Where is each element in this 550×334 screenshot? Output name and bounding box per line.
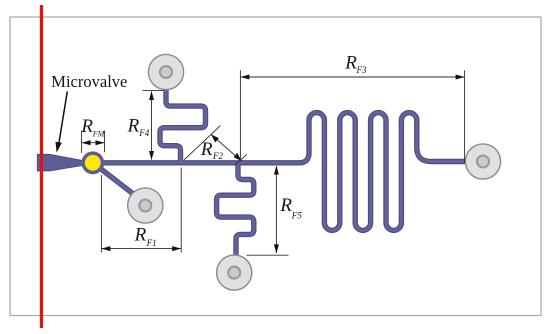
dimension RF3	[240, 70, 464, 163]
dimension RF1	[101, 168, 181, 253]
wire channel network light core layer	[86, 78, 476, 258]
dimension RFM	[82, 131, 105, 153]
dimension RF4	[143, 91, 164, 160]
svg-text:R: R	[344, 53, 357, 74]
dimension RF2 (oblique)	[184, 126, 247, 166]
svg-text:R: R	[279, 195, 292, 216]
svg-text:R: R	[134, 225, 147, 246]
svg-text:Microvalve: Microvalve	[51, 72, 127, 91]
svg-text:F2: F2	[212, 151, 223, 161]
inlet channel taper	[37, 154, 84, 171]
svg-text:R: R	[127, 116, 140, 137]
wire channel network dark outline layer	[86, 78, 476, 258]
svg-text:F5: F5	[291, 211, 302, 221]
port P3 (bottom-middle, RF5)	[217, 255, 252, 290]
svg-text:F4: F4	[138, 128, 149, 138]
svg-text:R: R	[80, 116, 93, 137]
microvalve leader arrow	[59, 92, 68, 146]
red cut line	[40, 5, 43, 328]
microvalve (yellow)	[81, 151, 104, 174]
svg-text:FM: FM	[92, 130, 106, 139]
svg-text:F1: F1	[146, 238, 157, 248]
port P2 (bottom-left, RF1)	[128, 188, 163, 223]
port P1 (top, RF4)	[148, 54, 183, 89]
dimension RF5	[247, 166, 289, 255]
svg-text:F3: F3	[356, 65, 367, 75]
svg-text:R: R	[200, 139, 213, 160]
port P4 (right, RF3)	[465, 144, 500, 179]
